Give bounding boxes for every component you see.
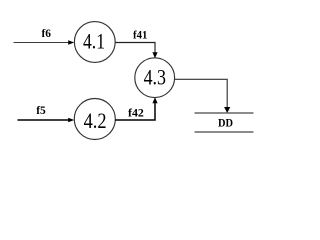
wire f6 arrow into 4.1 bbox=[14, 40, 75, 44]
svg-text:4.3: 4.3 bbox=[144, 65, 166, 90]
process 4.1 bbox=[74, 22, 115, 63]
wire f5 arrow into 4.2 bbox=[18, 118, 75, 122]
svg-text:f5: f5 bbox=[36, 105, 46, 117]
svg-text:f6: f6 bbox=[41, 28, 51, 40]
wire f42: 4.2 to 4.3 (right then up) bbox=[115, 97, 157, 120]
svg-text:4.2: 4.2 bbox=[84, 108, 107, 133]
process 4.2 bbox=[74, 99, 115, 140]
data store DD bbox=[195, 113, 254, 132]
svg-text:f41: f41 bbox=[133, 30, 148, 42]
svg-text:4.1: 4.1 bbox=[83, 28, 105, 53]
svg-text:DD: DD bbox=[218, 118, 233, 130]
process 4.3 bbox=[135, 58, 175, 98]
wire f41: 4.1 to 4.3 (right then down) bbox=[115, 43, 157, 59]
svg-text:f42: f42 bbox=[128, 108, 144, 120]
wire output: 4.3 right then down into DD bbox=[175, 79, 231, 113]
